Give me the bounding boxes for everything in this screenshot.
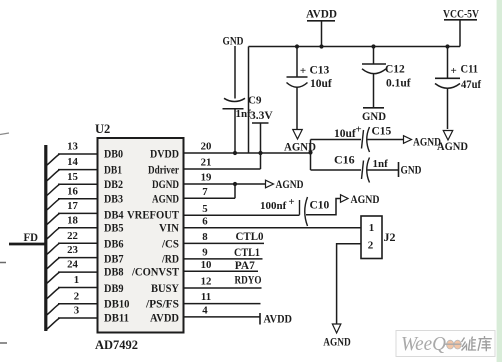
svg-text:+: +	[288, 196, 294, 208]
svg-text:DB0: DB0	[104, 149, 123, 161]
svg-text:1: 1	[369, 222, 375, 234]
svg-text:DB3: DB3	[104, 194, 123, 206]
capacitor C12	[362, 63, 386, 65]
svg-text:12: 12	[201, 276, 212, 288]
svg-text:VREFOUT: VREFOUT	[127, 209, 179, 221]
svg-text:22: 22	[67, 230, 78, 242]
bus entry pin 15	[45, 184, 60, 197]
wire pin 7	[184, 197, 236, 199]
bus entry pin 18	[45, 228, 60, 241]
svg-text:17: 17	[67, 200, 78, 212]
wire pin 11	[184, 303, 261, 305]
svg-text:C11: C11	[461, 64, 479, 76]
junction C9/pin20	[233, 151, 237, 155]
wire VCC-5V drop	[459, 20, 461, 47]
svg-text:/RD: /RD	[161, 253, 179, 265]
svg-text:10uf: 10uf	[334, 128, 356, 140]
wire DB pin 23	[58, 257, 98, 259]
bus entry pin 14	[45, 170, 60, 183]
wire rail to C12	[373, 47, 375, 65]
svg-text:21: 21	[201, 157, 212, 169]
svg-text:AGND: AGND	[413, 137, 441, 149]
svg-text:15: 15	[67, 171, 78, 183]
wire power rail	[249, 46, 461, 48]
svg-text:3.3V: 3.3V	[250, 110, 273, 122]
junction AVDD/rail	[319, 44, 323, 48]
wire rail to C11	[447, 47, 449, 79]
svg-text:C12: C12	[385, 64, 405, 76]
svg-text:GND: GND	[223, 36, 244, 48]
svg-text:GND: GND	[362, 111, 386, 123]
svg-text:C15: C15	[372, 126, 392, 138]
watermark oo dots	[447, 340, 454, 349]
svg-text:VIN: VIN	[159, 223, 180, 235]
bus entry pin 17	[45, 213, 60, 226]
svg-text:1: 1	[74, 274, 79, 286]
svg-text:1nf: 1nf	[373, 158, 389, 170]
svg-text:VCC-5V: VCC-5V	[443, 9, 480, 21]
svg-text:AGND: AGND	[437, 141, 468, 153]
wire pin7 riser	[234, 184, 236, 198]
wire DB pin 3	[58, 317, 98, 319]
AGND arrow right of C15	[404, 136, 412, 144]
power symbol AVDD pin4	[259, 313, 261, 325]
svg-text:100nf: 100nf	[260, 200, 287, 212]
svg-text:U2: U2	[95, 122, 110, 136]
svg-text:FD: FD	[24, 230, 39, 244]
svg-text:DVDD: DVDD	[150, 149, 179, 161]
svg-text:CTL1: CTL1	[234, 247, 260, 259]
wire pin 8	[184, 242, 265, 244]
svg-text:10uf: 10uf	[310, 78, 332, 90]
wire pin 12	[184, 287, 262, 289]
svg-text:C9: C9	[248, 95, 262, 107]
wire pin 19	[184, 183, 267, 185]
wire C16 to GND	[368, 169, 399, 171]
svg-text:18: 18	[67, 214, 78, 226]
connector J2 body	[361, 216, 382, 259]
bus entry pin 22	[45, 243, 60, 256]
wire pin 6	[184, 227, 362, 229]
svg-text:16: 16	[67, 185, 78, 197]
svg-text:3: 3	[74, 305, 80, 317]
wire FD stub	[9, 243, 46, 246]
wire rail riser	[248, 47, 250, 154]
capacitor C15	[362, 130, 364, 149]
wire 3.3V drop	[260, 123, 262, 169]
svg-text:Ddriver: Ddriver	[148, 164, 179, 176]
svg-text:DB9: DB9	[104, 283, 124, 295]
svg-text:DB7: DB7	[104, 253, 124, 265]
AGND arrow below C13	[293, 130, 303, 140]
wire DB pin 22	[58, 242, 98, 244]
svg-text:+: +	[355, 124, 361, 136]
svg-text:AVDD: AVDD	[264, 314, 293, 326]
svg-text:AGND: AGND	[276, 179, 304, 191]
wire pin 9	[184, 258, 263, 260]
svg-text:PA7: PA7	[235, 260, 255, 272]
bus entry pin 3	[45, 318, 60, 331]
svg-text:AGND: AGND	[152, 194, 179, 206]
wire C12 to GND	[373, 74, 375, 108]
wire pin 5	[184, 214, 300, 216]
wire DB pin 16	[58, 198, 98, 200]
wire DB pin 24	[58, 271, 98, 273]
svg-text:10: 10	[201, 259, 212, 271]
svg-text:13: 13	[67, 141, 78, 153]
svg-text:GND: GND	[401, 165, 422, 177]
svg-text:6: 6	[202, 215, 208, 227]
wire pin 21	[184, 168, 261, 170]
AGND arrow pin19	[266, 180, 274, 188]
svg-text:DB10: DB10	[104, 299, 130, 311]
svg-text:C13: C13	[310, 65, 330, 77]
svg-text:2: 2	[74, 290, 79, 302]
svg-text:DB1: DB1	[104, 164, 122, 176]
wire C10 to AGND	[306, 199, 341, 215]
page edge strip	[497, 0, 502, 362]
svg-text:AGND: AGND	[323, 337, 351, 349]
wire C15C16 riser	[310, 140, 312, 171]
capacitor C10	[299, 200, 301, 215]
svg-text:/CS: /CS	[161, 238, 179, 250]
bus entry pin 13	[45, 154, 60, 167]
wire DB pin 17	[58, 212, 98, 214]
svg-text:/PS/FS: /PS/FS	[145, 299, 179, 311]
junction C12/rail	[371, 44, 375, 48]
svg-text:24: 24	[67, 259, 78, 271]
svg-text:2: 2	[368, 240, 374, 252]
svg-text:8: 8	[202, 231, 208, 243]
bus bar FD	[44, 145, 47, 331]
watermark box	[396, 331, 495, 357]
svg-text:0.1uf: 0.1uf	[386, 78, 411, 90]
IC U2 AD7492 body	[98, 138, 184, 333]
capacitor C11	[435, 77, 460, 79]
svg-text:AVDD: AVDD	[150, 312, 179, 324]
svg-text:20: 20	[201, 141, 212, 153]
svg-text:AVDD: AVDD	[306, 7, 337, 21]
svg-text:11: 11	[201, 291, 211, 303]
bus entry pin 23	[45, 258, 60, 271]
wire DB pin 15	[58, 183, 98, 185]
wire C15 to AGND	[368, 139, 404, 141]
AGND arrow below J2	[332, 324, 341, 333]
watermark strike line	[444, 343, 462, 345]
svg-text:/CONVST: /CONVST	[131, 267, 179, 279]
wire pin 20	[184, 152, 311, 154]
wire DB pin 2	[58, 303, 98, 305]
wire DB pin 18	[58, 227, 98, 229]
wire C13 to AGND	[296, 88, 298, 130]
svg-text:5: 5	[202, 203, 207, 215]
svg-text:AD7492: AD7492	[95, 338, 138, 352]
svg-text:23: 23	[67, 244, 78, 256]
svg-text:DB6: DB6	[104, 238, 124, 250]
junction pin7/pin19	[233, 182, 237, 186]
bus entry pin 24	[45, 272, 60, 285]
wire AVDD drop	[321, 21, 323, 47]
watermark CJK glyphs	[462, 336, 492, 351]
wire DB pin 14	[58, 169, 98, 171]
capacitor C9	[224, 98, 245, 101]
svg-text:+: +	[300, 65, 306, 77]
wire J2 pin2 to AGND	[337, 244, 361, 324]
page tick mark middle	[0, 262, 6, 264]
junction C13/rail	[295, 44, 299, 48]
wire DB pin 13	[58, 153, 98, 155]
svg-text:DGND: DGND	[152, 179, 179, 191]
junction C11/rail	[445, 44, 449, 48]
svg-text:DB5: DB5	[104, 223, 124, 235]
capacitor C13	[287, 76, 308, 78]
page tick mark lower	[0, 342, 7, 344]
svg-text:+: +	[451, 65, 457, 77]
wire DB pin 1	[58, 287, 98, 289]
wire GND drop	[234, 46, 236, 99]
svg-text:9: 9	[202, 247, 208, 259]
svg-text:C10: C10	[310, 200, 330, 212]
wire C11 to AGND	[447, 88, 449, 129]
AGND arrow after C10	[341, 195, 349, 203]
wire to C15	[311, 139, 362, 141]
power symbol GND below C12	[363, 107, 384, 109]
svg-text:DB11: DB11	[104, 312, 129, 324]
svg-text:J2: J2	[384, 230, 396, 244]
AGND arrow below C11	[443, 131, 453, 141]
svg-text:WeeQ: WeeQ	[401, 333, 447, 355]
wire pin 4	[184, 316, 260, 318]
svg-text:BUSY: BUSY	[151, 283, 180, 295]
power symbol GND right of C16	[398, 162, 400, 177]
wire rail to C13	[296, 47, 298, 78]
svg-text:47uf: 47uf	[461, 79, 481, 91]
svg-text:AGND: AGND	[351, 194, 380, 206]
svg-text:DB8: DB8	[104, 267, 124, 279]
svg-text:C16: C16	[334, 153, 355, 167]
junction 3.3V/pin20	[258, 151, 262, 155]
bus entry pin 1	[45, 288, 60, 301]
svg-text:DB2: DB2	[104, 179, 123, 191]
capacitor C16	[362, 161, 364, 180]
svg-text:RDYO: RDYO	[235, 275, 262, 287]
wire C9 to pin20	[234, 109, 236, 153]
svg-text:DB4: DB4	[104, 209, 124, 221]
svg-text:7: 7	[202, 186, 208, 198]
svg-text:CTL0: CTL0	[236, 231, 264, 243]
svg-text:19: 19	[201, 172, 212, 184]
junction pin20/C15C16	[308, 150, 312, 154]
page tick mark upper	[0, 133, 9, 135]
svg-text:4: 4	[202, 305, 208, 317]
wire pin 10	[184, 270, 259, 272]
wire to C16	[311, 169, 362, 171]
bus entry pin 16	[45, 199, 60, 212]
svg-text:14: 14	[67, 156, 78, 168]
bus entry pin 2	[45, 304, 60, 317]
